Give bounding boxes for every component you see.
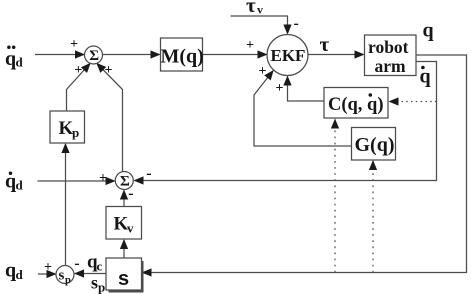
svg-text:+: + xyxy=(259,64,267,79)
svg-text:+: + xyxy=(44,260,52,275)
wire qdot_d input to sum2 xyxy=(38,180,115,182)
Kv value label xyxy=(114,214,135,236)
summing junction sum1 xyxy=(85,46,103,64)
sp junction glyph xyxy=(59,268,72,287)
svg-text:s: s xyxy=(118,268,129,290)
block Kp xyxy=(50,111,85,143)
svg-text:p: p xyxy=(72,125,79,140)
svg-text:s: s xyxy=(59,268,65,284)
svg-text:EKF: EKF xyxy=(271,46,306,65)
svg-text:+: + xyxy=(74,63,82,78)
svg-text:-: - xyxy=(294,15,299,32)
wire G(q) output to EKF lower-left xyxy=(254,71,352,146)
svg-text:v: v xyxy=(127,221,134,236)
op-amp EKF xyxy=(267,35,308,76)
block G(q) xyxy=(352,128,396,161)
wire tau_v into EKF top xyxy=(231,16,288,34)
node label qd xyxy=(5,260,24,283)
wire M(q) to EKF xyxy=(203,54,267,56)
svg-text:d: d xyxy=(16,55,24,70)
svg-text:q: q xyxy=(5,260,16,282)
svg-text:s: s xyxy=(91,273,98,293)
svg-text:q: q xyxy=(420,66,431,88)
svg-text:c: c xyxy=(97,259,103,274)
wire qd input to sp junction xyxy=(38,273,56,275)
wire dotted q into C(q,qdot) right side xyxy=(390,101,437,103)
svg-text:C(q, q): C(q, q) xyxy=(328,95,384,115)
svg-text:arm: arm xyxy=(375,56,407,76)
svg-text:v: v xyxy=(257,3,263,17)
svg-text:+: + xyxy=(99,171,107,186)
svg-text:G(q): G(q) xyxy=(355,134,395,156)
svg-text:-: - xyxy=(146,165,151,182)
svg-text:τ: τ xyxy=(246,0,256,17)
summing junction sum2 xyxy=(115,172,133,190)
block M(q) xyxy=(161,38,203,71)
block C(q,qdot) xyxy=(324,88,388,119)
svg-text:robot: robot xyxy=(368,37,409,57)
wire dotted q up into C(q,qdot) bottom xyxy=(334,120,336,273)
wire dotted q up into G(q) bottom xyxy=(372,161,374,273)
svg-text:+: + xyxy=(105,63,113,78)
svg-text:-: - xyxy=(74,255,79,272)
wire sum1 to M(q) xyxy=(103,54,160,56)
wire sp junction output up to Kp bottom xyxy=(65,144,67,266)
wire EKF to robot arm (tau) xyxy=(308,54,364,56)
node label tau_v xyxy=(246,0,263,17)
summing junction sp xyxy=(56,266,74,284)
block s xyxy=(106,258,142,290)
svg-text:-: - xyxy=(128,185,133,202)
node label sp xyxy=(91,273,105,294)
wire Kp output to sum1 lower-left xyxy=(67,64,91,112)
svg-text:q: q xyxy=(5,48,16,70)
svg-text:+: + xyxy=(70,37,78,52)
node label qc xyxy=(87,252,103,274)
wire s block output left into sp junction xyxy=(75,273,106,275)
node label q̈d xyxy=(5,46,24,70)
node label qdot_d xyxy=(5,171,24,193)
svg-text:+: + xyxy=(246,38,254,53)
block s shadow xyxy=(109,261,144,293)
wire Kv output up to sum2 bottom xyxy=(123,191,125,207)
svg-text:M(q): M(q) xyxy=(161,46,204,68)
svg-text:+: + xyxy=(276,81,284,96)
svg-text:p: p xyxy=(98,280,105,294)
robot arm value label xyxy=(368,37,409,76)
block robot arm xyxy=(365,35,417,76)
svg-text:d: d xyxy=(16,178,24,193)
wire sum2 output up to sum1 lower-right xyxy=(97,64,123,172)
node label qdot output xyxy=(420,66,431,88)
wire qdot output: robot arm down to velocity feedback into sum2 xyxy=(135,62,437,181)
block Kv xyxy=(106,207,142,240)
svg-text:d: d xyxy=(16,267,24,282)
Kp value label xyxy=(59,118,80,140)
svg-text:p: p xyxy=(65,275,71,286)
C(q,qdot) value label xyxy=(328,93,384,115)
wire q̈d input to sum1 xyxy=(35,54,84,56)
svg-text:q: q xyxy=(423,20,434,42)
svg-text:τ: τ xyxy=(320,32,330,56)
wire C(q,qdot) output to EKF bottom xyxy=(288,77,325,102)
svg-text:Σ: Σ xyxy=(89,48,99,64)
wire q output: robot arm right, down right side, bottom feedback into s block xyxy=(143,55,467,273)
wire s block output up to Kv bottom xyxy=(123,240,125,258)
